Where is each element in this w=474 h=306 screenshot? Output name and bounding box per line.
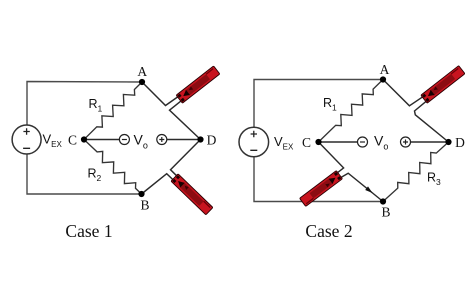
wire: case 1 plus terminal of Vo to node D (167, 139, 201, 141)
svg-text:VEX: VEX (43, 132, 63, 150)
strain gauge case 1 bottom (arm D-B) (red) (171, 174, 213, 215)
node D (case 2) (445, 139, 451, 145)
wire: case 2 left excitation loop (254, 80, 383, 202)
strain gauge case 2 bottom (arm C-B) (red) (300, 171, 343, 207)
wire: case 2 node C to minus terminal of Vo (319, 141, 358, 143)
svg-text:C: C (302, 135, 311, 150)
node C (case 2) (315, 139, 321, 145)
wire: case 1 gauge lead from node A (arm A-D) (142, 82, 182, 106)
node A (case 2) (380, 76, 386, 82)
wire: case 1 gauge lead to node B (arm D-B) (142, 174, 178, 194)
node D (case 1) (197, 136, 203, 142)
wire: case 1 left excitation loop (27, 82, 142, 195)
wire: case 2 gauge lead from node C (arm C-B) (319, 142, 344, 176)
node A (case 1) (139, 79, 145, 85)
wire: case 2 plus terminal of Vo to node D (411, 141, 449, 143)
node B (case 2) (380, 198, 386, 204)
wire: case 1 node C to minus terminal of Vo (84, 139, 119, 141)
svg-text:B: B (381, 205, 390, 220)
svg-text:C: C (68, 132, 77, 147)
resistor R2 (case 1, arm C-B) (84, 140, 142, 195)
Vo minus terminal circle (case 1) (119, 135, 129, 145)
svg-text:A: A (137, 64, 147, 79)
Vo minus terminal circle (case 2) (358, 137, 368, 147)
wire: case 2 gauge lead to node D (arm A-D) (415, 98, 449, 142)
wire: case 1 gauge lead to node D (arm A-D) (170, 98, 201, 140)
svg-text:D: D (455, 135, 465, 150)
Vo plus terminal circle (case 1) (157, 135, 167, 145)
svg-text:Vo: Vo (134, 132, 148, 151)
resistor R1 (case 1, arm C-A) (84, 82, 142, 140)
strain gauge case 1 top (arm A-D) (red) (176, 66, 220, 103)
Vo plus terminal circle (case 2) (401, 137, 411, 147)
svg-text:R1: R1 (323, 96, 337, 113)
node B (case 1) (138, 191, 144, 197)
node C (case 1) (81, 136, 87, 142)
svg-text:Case 2: Case 2 (305, 221, 352, 241)
svg-text:VEX: VEX (274, 134, 294, 152)
wire: case 1 gauge lead from node D (arm D-B) (171, 140, 201, 181)
voltage source V_EX (case 2) (239, 127, 269, 157)
svg-text:Vo: Vo (374, 133, 388, 152)
svg-text:Case 1: Case 1 (65, 221, 112, 241)
wire: case 2 gauge lead to node B (arm C-B) (337, 173, 383, 201)
resistor R1 (case 2, arm C-A) (319, 80, 384, 143)
resistor R3 (case 2, arm B-D) (383, 142, 449, 202)
voltage source V_EX (case 1) (12, 125, 41, 154)
svg-text:R1: R1 (89, 97, 103, 114)
svg-text:R3: R3 (427, 171, 441, 188)
wire: case 2 gauge lead from node A (arm A-D) (383, 80, 427, 106)
svg-text:B: B (140, 198, 149, 213)
svg-text:R2: R2 (88, 167, 102, 184)
arrowhead on case 2 C-B wire (365, 186, 372, 193)
strain gauge case 2 top (arm A-D) (red) (421, 66, 465, 104)
svg-text:A: A (380, 62, 390, 77)
svg-text:D: D (207, 132, 217, 147)
